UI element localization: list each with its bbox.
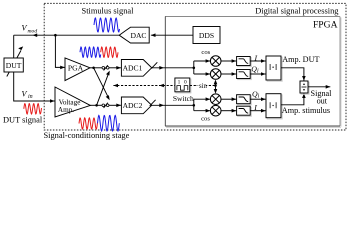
- mixer M1: [210, 56, 221, 67]
- wire Amp stimulus to divider: [281, 93, 304, 104]
- svg-text:−sin: −sin: [195, 83, 207, 90]
- wire ADC1 to mixers joint: [152, 67, 194, 69]
- DDS box: [193, 27, 220, 44]
- -sin dashed line: [190, 85, 216, 87]
- DUT box: [4, 58, 23, 72]
- PGA triangle: [65, 58, 90, 81]
- signal out wire: [308, 86, 330, 88]
- wire mixer M3 to filter F3: [221, 98, 236, 100]
- svg-text:Signal-conditioning stage: Signal-conditioning stage: [44, 131, 130, 140]
- svg-text:DUT: DUT: [6, 61, 22, 70]
- wire ADC2 to mixers joint: [152, 104, 194, 106]
- joint vertical for ADC2 I/Q: [193, 99, 195, 111]
- wire Vmod drop to DUT: [13, 35, 15, 58]
- mixer M2: [210, 69, 221, 80]
- filter F2: [237, 70, 252, 80]
- svg-text:mod: mod: [28, 28, 38, 34]
- bus slash ADC2: [150, 100, 156, 106]
- outer dashed box: [44, 3, 346, 130]
- svg-text:1: 1: [178, 80, 181, 86]
- wire DDS to DAC: [151, 34, 193, 36]
- mixer M4: [210, 105, 221, 116]
- filter F1: [237, 57, 252, 67]
- svg-text:Qi: Qi: [251, 64, 259, 74]
- joint vertical for ADC1 I/Q: [193, 61, 195, 74]
- svg-text:Digital signal processing: Digital signal processing: [255, 6, 339, 15]
- wire Vmod horizontal from DAC: [14, 34, 120, 36]
- svg-text:PGA: PGA: [68, 64, 84, 73]
- wire joint to M3: [194, 98, 210, 100]
- svg-text:0: 0: [184, 80, 187, 86]
- wave: DUT signal red (Vin): [24, 104, 42, 114]
- wire mixer M4 to filter F4: [221, 110, 236, 112]
- FPGA box: [165, 17, 341, 128]
- svg-text:I: I: [254, 53, 258, 62]
- svg-text:V: V: [22, 89, 28, 98]
- node branch to PGA: [54, 34, 57, 37]
- svg-text:Switch: Switch: [173, 94, 194, 103]
- wave: red then blue (below, before ADC2): [79, 118, 98, 129]
- svg-text:DAC: DAC: [130, 31, 146, 40]
- wire branch down to PGA: [55, 35, 64, 67]
- switch S1 at ADC1 input: [102, 67, 105, 70]
- svg-text:Stimulus signal: Stimulus signal: [82, 7, 135, 16]
- wire filter F3 to magnitude block: [250, 98, 265, 100]
- svg-text:I: I: [253, 103, 257, 112]
- wire joint to M1: [194, 60, 210, 62]
- ADC1 pentagon: [121, 60, 151, 77]
- DUT variable arrow: [7, 50, 21, 76]
- crossing diagonal A: PGA node down to S2: [94, 68, 109, 97]
- wire joint to M2: [194, 73, 210, 75]
- svg-text:ADC1: ADC1: [123, 64, 143, 73]
- divider block: [300, 81, 309, 94]
- switch box: [175, 78, 191, 93]
- wire mixer M1 to filter F1: [221, 60, 236, 62]
- wire Vin: DUT to voltage amp: [14, 72, 55, 101]
- crossing diagonal B: VA node up to S1: [97, 74, 109, 105]
- filter F3: [237, 95, 252, 105]
- filter F4: [237, 106, 252, 116]
- bus slash ADC1: [151, 62, 157, 68]
- wire S2 to ADC2: [109, 104, 121, 106]
- wire filter F2 to magnitude block: [250, 73, 265, 75]
- ADC2 pentagon: [121, 97, 151, 114]
- node PGA out: [92, 67, 95, 70]
- svg-text:cos: cos: [201, 116, 210, 123]
- switch control dashed line: [113, 85, 174, 87]
- DAC pentagon (points left): [119, 27, 149, 43]
- Voltage Amp triangle: [55, 87, 90, 117]
- svg-text:cos: cos: [201, 49, 210, 56]
- svg-text:Amp. stimulus: Amp. stimulus: [282, 106, 330, 115]
- wire mixer M2 to filter F2: [221, 73, 236, 75]
- svg-text:Amp.: Amp.: [58, 106, 74, 114]
- svg-text:FPGA: FPGA: [313, 20, 338, 31]
- svg-text:DDS: DDS: [199, 31, 214, 40]
- svg-text:in: in: [28, 94, 33, 100]
- svg-text:ADC2: ADC2: [123, 101, 143, 110]
- wire joint to M4: [194, 110, 210, 112]
- mixer M3: [210, 94, 221, 105]
- magnitude block Amp DUT: [266, 56, 282, 81]
- -sin vertical arrows to M2 and M3: [215, 81, 217, 86]
- svg-text:out: out: [317, 96, 328, 105]
- svg-text:DUT signal: DUT signal: [3, 115, 43, 124]
- wave: stimulus blue (top): [94, 18, 120, 32]
- svg-text:Amp. DUT: Amp. DUT: [282, 55, 319, 64]
- wire filter F4 to magnitude block: [250, 110, 265, 112]
- node VA out: [95, 104, 98, 107]
- wave: stimulus+DUT blue then red (above ADC1 path): [80, 47, 101, 57]
- magnitude block Amp stimulus: [266, 94, 282, 119]
- wire S1 to ADC1: [109, 67, 121, 69]
- switch S2 at ADC2 input: [102, 104, 105, 107]
- svg-text:Qi: Qi: [252, 89, 260, 99]
- wire Amp DUT to divider: [281, 68, 304, 81]
- wire filter F1 to magnitude block: [250, 60, 265, 62]
